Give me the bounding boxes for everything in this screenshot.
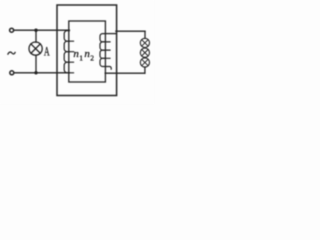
secondary winding n2 (4 squarish loops on inner-box right edge) (100, 34, 111, 70)
loop 2 (64, 41, 73, 52)
wire: lamp bottom branch (35, 55, 37, 73)
primary winding n1 (4 squarish loops on inner-box left edge) (64, 31, 73, 73)
loop 3 (64, 52, 73, 63)
wire: down to lamp string (144, 31, 146, 38)
inner box (core window) (69, 21, 106, 82)
loop 4 (100, 58, 111, 69)
loop 2 (100, 42, 110, 50)
svg-text:A: A (44, 43, 50, 58)
wire: bottom-left horizontal (14, 72, 70, 74)
node junction bottom (34, 71, 37, 74)
outer box (transformer enclosure) (57, 5, 117, 96)
svg-text:2: 2 (90, 53, 94, 62)
lamp A (circle with X) (29, 42, 42, 55)
lamp 2 (circle with X) (140, 48, 149, 57)
wire: secondary top lead to enclosure wall (105, 33, 116, 35)
wire: top-left horizontal (14, 29, 70, 31)
wire: lamp branch down (35, 30, 37, 42)
wire: lamp string bottom down (144, 67, 146, 73)
loop 4 (64, 62, 73, 73)
loop 3 (100, 50, 110, 58)
wire: top-right horizontal to lamps (116, 30, 145, 32)
lamp 3 (circle with X) (140, 58, 149, 67)
terminal bottom-left (10, 71, 14, 75)
svg-text:1: 1 (79, 53, 83, 62)
AC source tilde (8, 52, 15, 54)
wire: bottom-right horizontal back to secondary (105, 72, 145, 74)
loop 1 (100, 34, 110, 42)
node junction top (34, 29, 37, 32)
terminal top-left (10, 28, 14, 32)
transformer demonstration circuit schematic (0, 0, 154, 104)
loop 1 (64, 31, 73, 42)
lamp 1 (circle with X) (140, 38, 149, 47)
